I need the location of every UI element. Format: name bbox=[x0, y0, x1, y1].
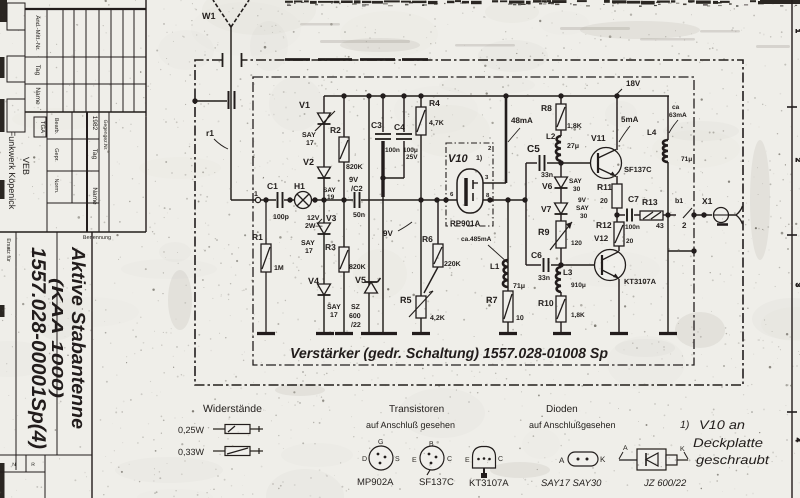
svg-text:1: 1 bbox=[794, 29, 800, 33]
svg-text:Bearb.: Bearb. bbox=[53, 118, 59, 135]
svg-text:C7: C7 bbox=[628, 194, 639, 204]
svg-text:25V: 25V bbox=[406, 154, 418, 161]
svg-text:geschraubt: geschraubt bbox=[696, 453, 770, 467]
svg-text:1982: 1982 bbox=[91, 116, 98, 131]
svg-text:100n: 100n bbox=[625, 224, 640, 231]
svg-text:2W—: 2W— bbox=[305, 223, 323, 230]
svg-text:V10: V10 bbox=[448, 153, 468, 165]
svg-text:Tag: Tag bbox=[91, 149, 98, 160]
svg-text:V10 an: V10 an bbox=[699, 418, 745, 432]
svg-text:18V: 18V bbox=[626, 79, 641, 88]
svg-text:SAY: SAY bbox=[576, 205, 589, 212]
svg-text:RP901A: RP901A bbox=[450, 219, 480, 228]
svg-text:820K: 820K bbox=[346, 164, 363, 171]
svg-text:2: 2 bbox=[794, 158, 800, 162]
svg-text:L3: L3 bbox=[563, 268, 573, 277]
svg-text:S: S bbox=[395, 456, 400, 463]
svg-text:20: 20 bbox=[626, 238, 634, 245]
svg-text:G: G bbox=[378, 439, 383, 446]
svg-text:ca: ca bbox=[672, 104, 680, 111]
svg-text:L1: L1 bbox=[490, 262, 500, 271]
svg-text:Name: Name bbox=[91, 187, 98, 205]
svg-text:48mA: 48mA bbox=[511, 116, 533, 125]
svg-text:5mA: 5mA bbox=[621, 115, 639, 124]
svg-text:Änd.-Mitt.-Nr.: Änd.-Mitt.-Nr. bbox=[34, 15, 42, 51]
svg-text:B: B bbox=[429, 441, 434, 448]
svg-text:R5: R5 bbox=[400, 295, 412, 305]
svg-text:A: A bbox=[559, 456, 565, 465]
svg-text:9V: 9V bbox=[383, 229, 393, 238]
svg-text:0,25W: 0,25W bbox=[178, 425, 205, 435]
svg-text:3: 3 bbox=[794, 283, 800, 287]
svg-text:SAY: SAY bbox=[323, 187, 336, 194]
svg-text:2: 2 bbox=[682, 221, 687, 230]
svg-text:R6: R6 bbox=[422, 234, 433, 244]
svg-text:1: 1 bbox=[254, 191, 258, 198]
svg-text:4: 4 bbox=[794, 438, 800, 442]
svg-text:V6: V6 bbox=[542, 181, 553, 191]
svg-text:V12: V12 bbox=[594, 234, 609, 243]
svg-text:100μ: 100μ bbox=[403, 147, 418, 154]
svg-text:V7: V7 bbox=[541, 204, 552, 214]
svg-text:L2: L2 bbox=[546, 132, 556, 141]
svg-text:Aktive Stabantenne: Aktive Stabantenne bbox=[67, 246, 88, 429]
svg-text:Verstärker (gedr. Schaltung) 1: Verstärker (gedr. Schaltung) 1557.028-01… bbox=[290, 346, 608, 362]
svg-text:SAY: SAY bbox=[569, 178, 582, 185]
svg-text:KT3107A: KT3107A bbox=[624, 277, 657, 286]
svg-text:(KAA 1000): (KAA 1000) bbox=[48, 278, 65, 398]
svg-text:R8: R8 bbox=[541, 103, 552, 113]
svg-text:V1: V1 bbox=[299, 100, 310, 110]
svg-text:SF137C: SF137C bbox=[419, 477, 454, 488]
svg-text:C1: C1 bbox=[267, 181, 278, 191]
svg-text:K: K bbox=[600, 455, 606, 464]
svg-text:SZ: SZ bbox=[351, 304, 361, 311]
svg-text:27μ: 27μ bbox=[567, 143, 579, 150]
svg-text:1557.028-00001Sp(4): 1557.028-00001Sp(4) bbox=[27, 247, 49, 449]
svg-text:R9: R9 bbox=[538, 227, 550, 237]
svg-text:R11: R11 bbox=[597, 182, 612, 192]
svg-text:50n: 50n bbox=[353, 212, 365, 219]
svg-text:Gegengez.Nr.: Gegengez.Nr. bbox=[102, 120, 108, 151]
svg-text:MP902A: MP902A bbox=[357, 477, 394, 488]
svg-text:20: 20 bbox=[600, 198, 608, 205]
svg-text:1): 1) bbox=[476, 154, 482, 162]
svg-text:SAY: SAY bbox=[327, 304, 341, 311]
svg-text:JZ 600/22: JZ 600/22 bbox=[643, 478, 687, 489]
svg-text:ca.485mA: ca.485mA bbox=[461, 236, 492, 243]
svg-text:r1: r1 bbox=[206, 128, 214, 138]
svg-text:R12: R12 bbox=[596, 220, 612, 230]
svg-text:/22: /22 bbox=[351, 321, 361, 329]
svg-text:SAY: SAY bbox=[302, 132, 316, 139]
svg-text:1): 1) bbox=[680, 419, 689, 431]
svg-text:H1: H1 bbox=[294, 181, 305, 191]
svg-text:W1: W1 bbox=[202, 11, 216, 21]
svg-text:SF137C: SF137C bbox=[624, 165, 652, 174]
svg-text:1M: 1M bbox=[274, 265, 284, 272]
svg-text:N: N bbox=[12, 462, 16, 468]
svg-text:C4: C4 bbox=[394, 122, 405, 132]
svg-text:Benennung: Benennung bbox=[83, 235, 111, 241]
svg-text:C5: C5 bbox=[527, 144, 540, 155]
svg-text:C: C bbox=[498, 456, 503, 463]
svg-text:220K: 220K bbox=[444, 261, 461, 268]
svg-text:R10: R10 bbox=[538, 298, 554, 308]
svg-text:Deckplatte: Deckplatte bbox=[693, 436, 763, 450]
svg-text:b1: b1 bbox=[675, 197, 683, 205]
svg-text:Ersatz für: Ersatz für bbox=[5, 238, 11, 262]
svg-text:auf Anschluß gesehen: auf Anschluß gesehen bbox=[366, 420, 455, 430]
svg-text:V11: V11 bbox=[591, 133, 606, 143]
svg-text:63mA: 63mA bbox=[669, 112, 687, 119]
svg-text:Transistoren: Transistoren bbox=[389, 404, 444, 415]
svg-text:820K: 820K bbox=[349, 264, 366, 271]
svg-text:TGA: TGA bbox=[39, 121, 46, 133]
svg-text:E: E bbox=[465, 457, 470, 464]
svg-text:E: E bbox=[412, 457, 417, 464]
svg-text:71μ: 71μ bbox=[513, 283, 525, 290]
svg-text:10: 10 bbox=[516, 315, 524, 322]
svg-text:Dioden: Dioden bbox=[546, 404, 578, 415]
svg-text:SAY: SAY bbox=[301, 240, 315, 247]
svg-text:43: 43 bbox=[656, 223, 664, 230]
svg-text:C3: C3 bbox=[371, 120, 382, 130]
svg-text:V3: V3 bbox=[326, 213, 337, 223]
svg-text:1,8K: 1,8K bbox=[571, 312, 585, 319]
svg-text:R1: R1 bbox=[252, 232, 263, 242]
svg-text:33n: 33n bbox=[541, 172, 553, 179]
svg-text:Gepr.: Gepr. bbox=[53, 148, 59, 162]
svg-text:R7: R7 bbox=[486, 295, 498, 305]
svg-text:Tag: Tag bbox=[34, 65, 41, 76]
svg-text:L4: L4 bbox=[647, 128, 657, 137]
svg-text:910μ: 910μ bbox=[571, 282, 586, 289]
svg-text:4,2K: 4,2K bbox=[430, 315, 445, 322]
svg-text:R3: R3 bbox=[325, 242, 336, 252]
svg-text:V5: V5 bbox=[355, 275, 366, 285]
svg-text:30: 30 bbox=[573, 186, 581, 193]
svg-text:Norm.: Norm. bbox=[53, 179, 59, 194]
svg-text:V4: V4 bbox=[308, 276, 319, 286]
svg-text:33n: 33n bbox=[538, 275, 550, 282]
svg-text:auf Anschlußgesehen: auf Anschlußgesehen bbox=[529, 420, 616, 430]
svg-text:0,33W: 0,33W bbox=[178, 447, 205, 457]
svg-text:30: 30 bbox=[580, 213, 588, 220]
svg-text:120: 120 bbox=[571, 240, 582, 247]
svg-text:R4: R4 bbox=[429, 98, 440, 108]
svg-text:Name: Name bbox=[34, 87, 41, 105]
svg-text:17: 17 bbox=[306, 140, 314, 147]
svg-text:71μ: 71μ bbox=[681, 156, 692, 163]
svg-text:KT3107A: KT3107A bbox=[469, 478, 509, 489]
svg-text:17: 17 bbox=[305, 248, 313, 255]
svg-text:12V: 12V bbox=[307, 215, 320, 222]
svg-text:100p: 100p bbox=[273, 214, 289, 221]
svg-text:A: A bbox=[623, 445, 628, 452]
svg-text:9V: 9V bbox=[349, 175, 358, 184]
svg-text:V2: V2 bbox=[303, 157, 314, 167]
svg-text:VEB: VEB bbox=[21, 157, 31, 175]
svg-text:17: 17 bbox=[330, 312, 338, 319]
svg-text:600: 600 bbox=[349, 313, 361, 320]
svg-text:X1: X1 bbox=[702, 196, 713, 206]
svg-text:100n: 100n bbox=[385, 147, 400, 154]
svg-text:9V: 9V bbox=[578, 197, 587, 204]
svg-text:/C2: /C2 bbox=[351, 184, 363, 193]
svg-text:R2: R2 bbox=[330, 125, 341, 135]
svg-text:Funkwerk Köpenick: Funkwerk Köpenick bbox=[7, 131, 17, 210]
svg-text:D: D bbox=[362, 456, 367, 463]
